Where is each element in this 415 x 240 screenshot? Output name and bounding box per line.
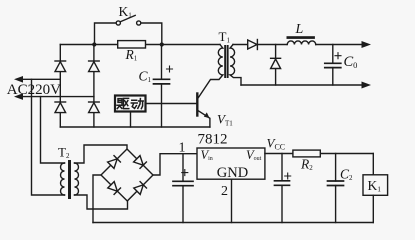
svg-text:T1: T1 [219,29,231,45]
capacitor C0 [325,45,341,86]
wire T1 secondary top to diode [233,44,248,46]
node junction R1 right / C1 top [160,42,164,46]
svg-text:1: 1 [179,141,186,156]
wire AC line upper with arrow [14,76,60,83]
wire T2 primary feed 1 [32,79,65,195]
output arrow bottom [362,82,372,89]
svg-text:R1: R1 [125,47,138,63]
drive block (qu dong) [115,96,146,112]
bridge rectifier 1 right column wire [93,45,95,128]
wire T2 primary feed 2 [41,97,65,163]
wire AC line lower with arrow [14,93,94,100]
wire drive to ground rail [130,112,132,128]
svg-text:R2: R2 [300,157,313,173]
svg-text:C0: C0 [344,54,358,70]
wire GND pin to ground rail [231,179,233,222]
relay K1 box [363,154,388,223]
svg-text:T2: T2 [58,145,70,161]
wire ground rail bottom [93,222,373,224]
diode D6 freewheel [271,45,281,86]
svg-text:7812: 7812 [198,132,228,148]
diode B4 bottom-right (points to right vertex) [134,182,147,195]
svg-text:C2: C2 [340,167,353,183]
wire T2 secondary top to bridge2 [75,145,128,163]
diode B1 top-left (points to top vertex) [108,156,121,169]
svg-text:GND: GND [217,165,248,181]
diode D3 lower-left (bridge1) [55,102,66,113]
diode D2 upper-right (bridge1) [89,61,100,72]
resistor R1 [118,41,146,48]
diode D1 upper-left (bridge1) [55,61,66,72]
svg-text:L: L [295,22,304,37]
diode D4 lower-right (bridge1) [89,102,100,113]
regulator U1 7812 [197,148,265,179]
wire bridge2 right vertex to 7812 [153,154,197,175]
inductor L [287,36,316,44]
output arrow top [362,41,372,48]
svg-text:VCC: VCC [267,136,286,152]
svg-text:VT1: VT1 [217,112,233,128]
diode B3 bottom-left (points to bottom vertex) [108,182,121,195]
wire L to output [316,44,362,46]
capacitor C3 input filter [173,154,193,223]
wire Vout rail [265,153,373,155]
bridge rectifier 2 diamond [101,149,153,201]
capacitor C4 output filter [275,154,291,223]
transistor VT1 [197,94,210,128]
wire bridge2 left vertex to ground [93,175,101,223]
diode D5 output series [248,40,287,50]
node junction at bridge top / K1 left [92,42,96,46]
bridge rectifier 1 left column wire [59,45,61,128]
wire bottom rail [60,126,210,128]
wire output bottom rail [241,84,362,86]
capacitor C2 [328,154,344,223]
switch K1 [95,15,162,44]
svg-text:2: 2 [221,184,228,199]
capacitor C1 [154,45,173,128]
wire T2 secondary bottom to bridge2 [75,195,128,209]
transformer T2 [61,160,79,199]
wire drive to base [146,103,197,105]
wire top rail [60,44,220,46]
transformer T1 [198,45,241,98]
diode B2 top-right (points to right vertex) [134,156,147,169]
svg-text:AC220V: AC220V [7,82,61,98]
svg-text:C1: C1 [139,69,152,85]
resistor R2 [293,150,320,157]
svg-text:K1: K1 [119,4,133,20]
